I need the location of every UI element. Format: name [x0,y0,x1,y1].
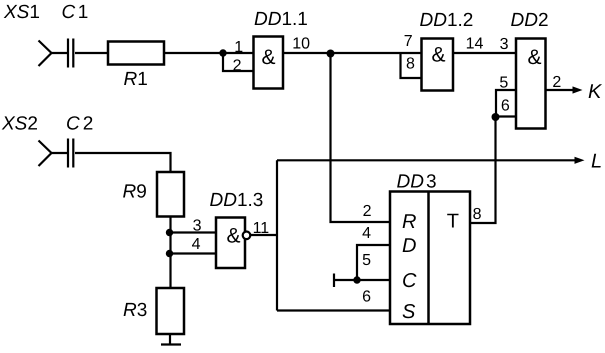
svg-text:4: 4 [192,236,201,253]
svg-text:6: 6 [501,98,510,115]
svg-text:10: 10 [292,36,310,53]
flip-flop DD3 box [390,192,470,325]
svg-text:2: 2 [233,57,242,74]
svg-text:XS2: XS2 [1,114,38,135]
gate DD1.2 box [422,39,454,91]
svg-text:5: 5 [499,75,508,92]
svg-text:DD1.2: DD1.2 [420,10,474,31]
svg-text:XS1: XS1 [3,2,40,23]
svg-text:6: 6 [362,288,371,305]
svg-text:C: C [402,270,417,292]
wire DD2 output K [546,89,574,91]
wire output 14 [453,52,516,54]
svg-text:DD2: DD2 [511,10,549,31]
svg-text:R9: R9 [123,182,147,203]
svg-text:C2: C2 [66,114,93,135]
op-amp U1 box DD1.1 [254,37,284,89]
resistor R3 [157,288,185,334]
svg-text:&: & [432,43,446,66]
node junction R9 pin3 [166,229,173,236]
node junction output 10 [327,50,335,58]
capacitor C1 [68,39,73,68]
connector XS1 [39,41,52,67]
wire [164,52,254,54]
svg-text:DD3: DD3 [397,172,437,193]
svg-text:&: & [262,46,276,69]
wire vertical DD1.3 out to L and S [276,160,278,310]
wire [169,217,171,289]
svg-text:R1: R1 [124,69,148,90]
gate DD2 box [516,39,546,129]
node junction DD2 pin6 [492,113,500,121]
svg-text:8: 8 [473,206,482,223]
capacitor C2 [68,139,73,168]
wire L line [277,159,575,161]
wire vertical from node 10 to DD3 R [331,53,391,222]
wire D input loop [357,245,390,280]
svg-text:2: 2 [363,203,372,220]
svg-text:3: 3 [193,217,202,234]
wire pin8 loop DD1.2 [401,53,422,78]
gate DD1.3 box [216,218,245,269]
wire DD3 pin8 to DD2 pin5/6 [470,117,496,223]
svg-text:&: & [227,225,241,248]
wire [51,152,68,154]
svg-text:7: 7 [404,33,413,50]
wire pin 3 [170,231,217,233]
svg-text:S: S [402,301,416,323]
svg-text:1: 1 [234,39,243,56]
wire output 10 [283,52,422,54]
svg-text:R3: R3 [123,300,147,321]
wire pin2 loop DD1.1 [223,53,254,71]
arrow L [575,157,585,164]
svg-text:K: K [588,81,603,103]
wire output 11 [250,234,277,236]
svg-text:DD1.3: DD1.3 [210,190,264,211]
svg-text:14: 14 [466,35,484,52]
svg-text:L: L [591,151,602,173]
svg-text:C1: C1 [62,2,89,23]
svg-text:R: R [402,211,416,233]
wire [75,153,171,172]
svg-text:&: & [528,46,542,69]
wire [51,52,68,54]
svg-text:11: 11 [253,220,270,237]
wire [75,52,108,54]
wire C input with end bar [334,274,390,288]
svg-text:8: 8 [406,56,415,73]
svg-text:2: 2 [552,74,561,91]
gate DD1.3 inversion bubble [243,232,251,240]
wire [169,334,171,345]
node junction DD1.1 inputs [219,49,226,56]
svg-text:4: 4 [362,225,371,242]
svg-text:5: 5 [362,252,371,269]
svg-text:T: T [447,211,459,233]
ground [161,343,181,345]
svg-text:3: 3 [500,36,509,53]
wire S input [277,309,390,311]
connector XS2 [39,141,52,167]
svg-text:DD1.1: DD1.1 [254,9,308,30]
node junction R3 pin4 [166,250,173,257]
resistor R1 [108,42,164,65]
node junction C-D tie [353,276,360,283]
arrow K [573,86,583,93]
svg-text:D: D [402,235,416,257]
wire pin 4 [170,252,217,254]
flip-flop DD3 divider [427,192,430,325]
resistor R9 [157,172,184,217]
wire pin5-pin6 loop DD2 [496,90,516,117]
